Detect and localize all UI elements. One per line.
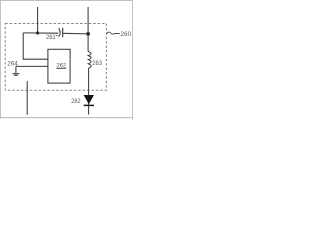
svg-text:282: 282	[71, 98, 80, 105]
svg-text:264: 264	[7, 61, 18, 68]
svg-text:261: 261	[46, 34, 56, 41]
svg-text:260: 260	[120, 31, 131, 38]
svg-text:263: 263	[92, 60, 102, 67]
